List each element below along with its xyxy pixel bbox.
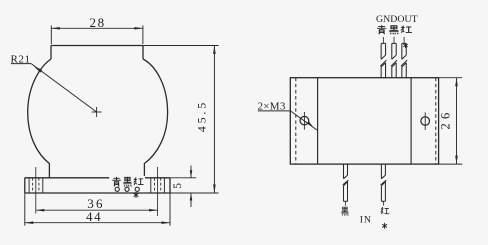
svg-text:IN: IN [360,214,372,225]
arrow 5 bottom [190,193,193,201]
terminal circle red [135,187,139,191]
svg-text:44: 44 [86,209,102,224]
arrow R21 on arc [34,66,43,73]
char huang front [112,177,120,187]
arrow 45.5 bottom [213,185,216,194]
dim 5 line stubs [190,166,192,178]
terminal circle yellow [115,187,119,191]
arrow 28 left [51,27,60,30]
base right edge [169,178,171,193]
2xM3 label and leader [258,111,318,131]
terminal wires break line for text [109,176,145,187]
top pins [380,37,407,78]
right slot solid edges [150,178,152,193]
dim 44 extension lines [24,193,26,226]
label hong (bottom) [381,207,389,214]
arrow 28 right [134,27,143,30]
body right arc [143,59,168,178]
body flat top [51,45,143,47]
body top-right corner [142,46,144,60]
pin red (bottom right) [381,164,387,206]
svg-text:2×M3: 2×M3 [258,100,286,112]
char huang top [377,25,386,34]
dim 44 line [25,222,170,224]
polarity asterisk front [134,192,139,198]
body left arc [28,59,51,178]
arrow 45.5 top [213,46,216,55]
label 黄黑红 (top, drawn strokes) [377,25,412,34]
base bottom edge [25,192,170,194]
svg-text:5: 5 [172,183,184,189]
right cap divider [410,78,412,164]
arrow 36 right [149,209,158,212]
svg-text:45.5: 45.5 [195,100,209,132]
arrow 44 right [162,221,171,224]
right slot centerline / 36 extension [157,167,159,216]
svg-text:28: 28 [90,15,106,30]
top edge extension to 45.5 dim [143,45,219,47]
label hei (bottom) [341,207,348,215]
dim 45.5 line [213,46,215,194]
arrow 36 left [36,209,45,212]
base left edge [24,178,26,193]
M3 hole right [421,117,430,126]
dim 26 [439,78,463,164]
base top edge [25,177,110,179]
dim 28 line [51,27,143,29]
body top-left corner [50,46,52,60]
svg-text:GNDOUT: GNDOUT [376,14,418,25]
arrow 2xM3 [306,121,314,128]
bottom pins [343,164,387,206]
left slot centerline / 36 extension [35,167,37,214]
center mark + [92,111,102,113]
arrowheads front [25,27,216,224]
svg-text:26: 26 [438,109,452,130]
hole centerline right [424,112,426,130]
char hong top [401,26,411,33]
char hei front [123,177,131,186]
dim 28 extension lines [50,25,52,44]
dim 36 line [36,209,158,211]
char hei top [389,26,398,35]
base bottom extension to 45.5 dim [170,192,219,194]
left slot hidden edges [32,178,34,193]
pin yellow (top 1) [380,37,386,78]
pin black (bottom left) [343,164,349,206]
char hong front [134,177,143,185]
arrow 44 left [25,221,34,224]
left slot solid edges [28,178,30,193]
R21 leader [11,64,97,112]
side body rectangle [290,78,438,164]
label 黄黑红 (front, drawn strokes) [112,177,143,187]
pin red (top 3) [401,37,407,78]
dim 5 top extension [170,177,196,179]
left cap divider [317,78,319,164]
polarity asterisk bottom [382,223,387,229]
polarity asterisk top pin3 [403,43,407,48]
right slot hidden edges [154,178,156,193]
terminal circle black [125,187,129,191]
hidden edge right [435,78,437,164]
hidden edge left [295,78,297,164]
svg-text:R21: R21 [11,53,31,65]
pin black (top 2) [391,37,397,78]
M3 hole left [300,116,309,125]
arrow 5 top [190,170,193,178]
hole centerline left [303,112,305,130]
